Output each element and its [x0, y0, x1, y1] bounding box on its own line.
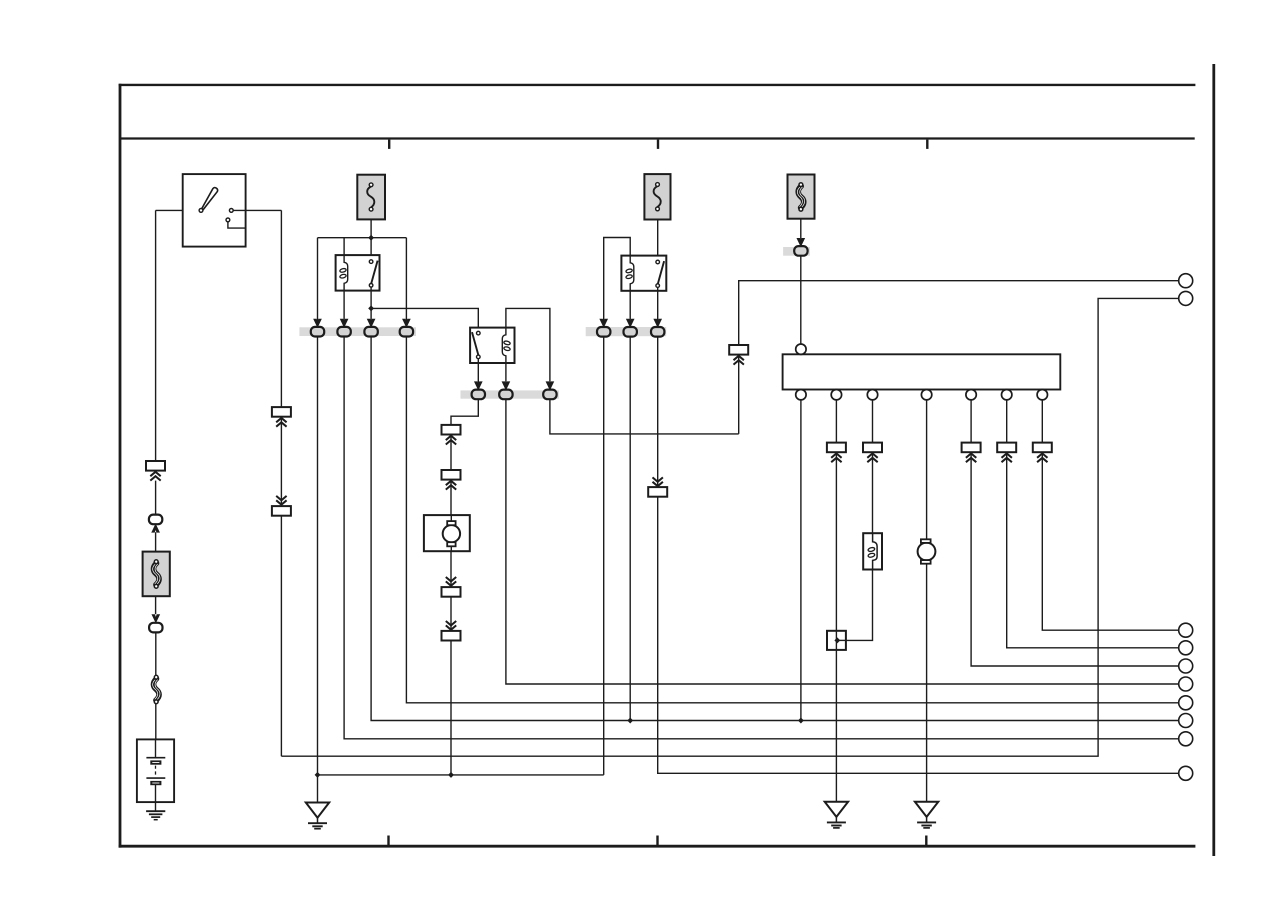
band2 arrow 1 [475, 382, 482, 390]
node fuse F1 output junction [368, 235, 374, 241]
wire band3 oval1 down to ground net [603, 332, 605, 775]
wire ground net left [318, 774, 604, 776]
solenoid L1 [863, 533, 882, 569]
header separator line [120, 137, 1195, 139]
wire battery chain vertical x=155.6 [155, 210, 157, 461]
band3 oval connector 3 [651, 327, 664, 337]
band3 arrow 2 [627, 319, 634, 327]
wire [155, 532, 157, 551]
wire branch down to band1 oval4 [405, 238, 407, 332]
wire fuse F2 down to relay R2 switch [657, 220, 659, 263]
wire relay R3 coil feed from band2 oval3 [506, 308, 550, 390]
terminal circle 5 [1179, 659, 1193, 673]
band1 arrow 3 [367, 319, 374, 327]
connector left of ECU [729, 345, 748, 365]
mini gray band at FL2 oval [783, 247, 810, 256]
band1 oval connector 2 [337, 327, 350, 337]
band2 arrow 2 [502, 382, 509, 390]
relay R3 (mirrored) [470, 328, 514, 363]
band3 arrow 1 [600, 319, 607, 327]
fusible link wire (bare) [153, 675, 160, 703]
wire relay R2 coil down to band3 oval2 [629, 291, 631, 332]
right page divider line [1212, 64, 1215, 856]
fuse F1 (gray box) [357, 175, 385, 220]
connector below band3 oval3 (facing down) [648, 477, 667, 496]
terminal circle 10 [1179, 766, 1193, 780]
relay R2 [621, 256, 666, 291]
connector band 3 (gray) [586, 327, 667, 336]
wire branch down to band1 oval1 [317, 238, 319, 332]
node ECU pin1 wire joins net [798, 718, 804, 724]
connector on pin2 wire [827, 443, 846, 463]
terminal circle 7 [1179, 696, 1193, 710]
relay R1 [336, 255, 380, 291]
frame bottom border [119, 845, 1196, 848]
connector on pin7 wire [1033, 443, 1052, 463]
header tick 2 [657, 140, 659, 149]
wire band1 oval1 down to ground net [317, 332, 319, 803]
band3 oval connector 2 [624, 327, 637, 337]
wire relay R1 output to relay R3 switch [371, 308, 478, 331]
wire [155, 704, 157, 740]
wire ECU pin6 down then right [1007, 400, 1179, 648]
wire band1 oval3 down then right [371, 332, 1179, 721]
band3 oval connector 1 [597, 327, 610, 337]
wire ignition switch left lead to battery chain [156, 209, 199, 211]
wire branch down to relay R1 coil [343, 238, 345, 255]
wire band2 oval2 down then right [506, 394, 1179, 684]
ECU bottom pin 1 [796, 390, 806, 400]
band2 oval connector 3 [543, 390, 556, 400]
terminal circle 1 [1179, 274, 1193, 288]
wire [155, 633, 157, 676]
node relay R1 output junction [368, 305, 374, 311]
wire ECU feed from band2 oval3 up and right to terminal [739, 281, 1179, 434]
connector on motor chain 2 [442, 470, 461, 490]
connector oval on battery chain [149, 623, 162, 633]
node ground net at motor chain [448, 772, 454, 778]
connector band 1 (gray) [299, 327, 416, 336]
wire fusible link FL2 down [800, 219, 802, 247]
ECU bottom pin 6 [1002, 390, 1012, 400]
bottom tick 1 [387, 836, 389, 846]
band2 oval connector 2 [499, 390, 512, 400]
connector below motor (facing down) [442, 577, 461, 597]
band1 arrow 4 [403, 319, 410, 327]
wire FL2 oval down to ECU top pin [800, 256, 802, 344]
battery BT1 [137, 739, 174, 802]
wire battery chain [155, 481, 157, 515]
bottom tick 3 [925, 836, 927, 846]
wire solenoid down then left to junction box [837, 570, 872, 641]
ECU U1 box [783, 354, 1061, 389]
wire ECU pin5 down then right [971, 400, 1179, 666]
frame top border [119, 84, 1196, 86]
terminal circle 2 [1179, 291, 1193, 305]
wire ECU pin2 down to ground [835, 400, 837, 802]
connector on motor chain [442, 425, 461, 445]
FL2 oval connector [794, 246, 807, 256]
wire relay R2 coil feed loop [604, 238, 631, 333]
wire band1 oval4 down then right [406, 332, 1179, 703]
arrow into FL2 oval [797, 238, 804, 246]
header tick 1 [388, 140, 390, 149]
connector band 2 (gray) [461, 390, 559, 398]
band1 oval connector 4 [400, 327, 413, 337]
connector oval on battery chain [149, 515, 162, 525]
wire ignition output vertical x=281.4 down [280, 210, 282, 756]
ECU bottom pin 7 [1037, 390, 1047, 400]
node band3 oval2 wire joins net [627, 718, 633, 724]
node ground net at band1 oval1 wire [315, 772, 321, 778]
wire washer motor down to ground net [450, 551, 452, 775]
wire band2 oval3 down then right [550, 394, 739, 434]
connector on pin6 wire [997, 443, 1016, 463]
wire relay R2 switch down to band3 oval3 [657, 288, 659, 332]
frame left border [119, 84, 122, 848]
wire ECU pin4 down to ground [926, 400, 928, 802]
wire fuse F1 down to relay R1 [370, 219, 372, 262]
terminal circle 8 [1179, 714, 1193, 728]
wire solenoid branch inside junction box [837, 639, 846, 641]
wire ECU pin1 down to node [800, 400, 802, 721]
battery ground [146, 802, 165, 820]
wire band3 oval3 down then right to terminal [658, 332, 1179, 773]
wire pin2 through junction box [835, 631, 837, 650]
connector on ignition output wire [272, 407, 291, 427]
ground G2 [825, 802, 848, 828]
connector on pin5 wire [962, 443, 981, 463]
connector on battery chain [146, 461, 165, 481]
connector on pin3 wire [863, 443, 882, 463]
ground G3 [915, 802, 938, 828]
motor M2 (pump) [918, 539, 936, 563]
wire relay R1 switch down [370, 287, 372, 332]
band1 oval connector 3 [364, 327, 377, 337]
wire ignition switch output to x=281.4 [233, 209, 281, 211]
washer motor M1 [424, 515, 470, 551]
band1 arrow 2 [340, 319, 347, 327]
terminal circle 3 [1179, 623, 1193, 637]
wire [155, 596, 157, 614]
junction box on pin2 wire [827, 631, 846, 650]
band2 oval connector 1 [472, 390, 485, 400]
bottom tick 2 [656, 836, 658, 846]
ECU bottom pin 3 [867, 390, 877, 400]
wire band2 oval1 down to washer motor chain [451, 394, 478, 515]
wire ECU pin3 down to solenoid [872, 400, 874, 533]
wire ECU pin7 down then right [1042, 400, 1179, 630]
ECU top pin [796, 344, 806, 354]
arrow up into oval [152, 524, 159, 532]
fuse F2 (gray box) [644, 174, 670, 219]
fusible link FL2 (gray box) [788, 175, 815, 219]
ignition switch SW1 [183, 174, 246, 247]
wire band1 oval2 down then right [344, 332, 1179, 739]
ECU bottom pin 5 [966, 390, 976, 400]
band1 arrow 1 [314, 319, 321, 327]
ground G1 [306, 803, 329, 829]
band3 arrow 3 [654, 319, 661, 327]
wire relay R1 coil to band1 oval2 [343, 291, 345, 332]
band2 arrow 3 [546, 382, 553, 390]
terminal circle 9 [1179, 732, 1193, 746]
wire relay R3 coil down to band2 oval2 [505, 363, 507, 394]
header tick 3 [926, 140, 928, 149]
fusible link FL1 (gray box) [143, 552, 170, 597]
terminal circle 6 [1179, 677, 1193, 691]
ECU bottom pin 4 [921, 390, 931, 400]
node junction box splice [834, 637, 840, 643]
wire relay R3 switch down to band2 oval1 [477, 359, 479, 395]
wire band3 oval2 down to node [629, 332, 631, 721]
arrow down into oval [152, 615, 159, 623]
band1 oval connector 1 [311, 327, 324, 337]
ECU bottom pin 2 [831, 390, 841, 400]
terminal circle 4 [1179, 641, 1193, 655]
connector on ignition output wire (facing down) [272, 496, 291, 516]
wire ignition output down right up to terminal 2 [281, 298, 1179, 756]
connector below motor 2 (facing down) [442, 621, 461, 641]
wire feed rail y=237.7 [318, 237, 407, 239]
